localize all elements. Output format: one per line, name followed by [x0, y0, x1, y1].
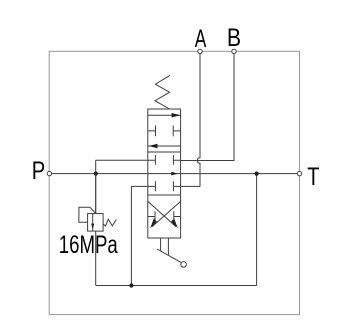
junction: P branch — [94, 172, 98, 176]
wire: valve lower-left port to tank riser — [131, 186, 147, 285]
position 1 flow arrow left — [148, 145, 181, 147]
svg-text:A: A — [195, 25, 207, 53]
relief valve body — [88, 214, 104, 232]
lever actuator knob — [181, 262, 187, 268]
position 2 lower blocked port T-stubs — [148, 181, 181, 191]
enclosure border — [49, 51, 299, 314]
valve body: 3-position outer box — [148, 109, 181, 238]
port A — [198, 49, 202, 53]
junction: T branch — [255, 172, 259, 176]
wire: bottom tank line — [96, 285, 257, 287]
junction: tank line — [129, 283, 133, 287]
relief valve outlet line — [95, 231, 97, 285]
relief valve pilot line — [79, 207, 96, 222]
relief valve internal flow line — [92, 214, 94, 232]
position 3 blocked port T-stubs — [148, 211, 181, 222]
port P — [47, 171, 51, 175]
relief valve internal arrowhead — [91, 224, 94, 230]
lever actuator stems — [161, 238, 169, 255]
position 1 flow arrow right — [148, 114, 181, 116]
position 1 blocked port T-stubs — [148, 126, 181, 137]
wire: main P-T line — [52, 173, 298, 175]
svg-text:16MPa: 16MPa — [59, 231, 118, 259]
wire: B port line — [181, 54, 234, 161]
lever actuator arm — [157, 249, 181, 262]
wire: P branch riser (junction up to upper-left valve feed, down to relief valve) — [95, 160, 97, 213]
port B — [232, 49, 236, 53]
valve divider 2 — [148, 194, 181, 196]
svg-text:B: B — [227, 24, 241, 52]
valve return spring — [155, 75, 170, 109]
svg-text:P: P — [32, 157, 46, 185]
port T — [297, 171, 301, 175]
valve divider 1 — [148, 151, 181, 153]
position 3 crossed arrow 1 — [148, 202, 176, 227]
wire: A port line with hop over B line — [181, 54, 200, 187]
relief valve feed line — [95, 174, 97, 214]
position 2 upper blocked port T-stubs — [148, 155, 181, 165]
svg-text:T: T — [307, 163, 319, 191]
wire: branch to valve upper-left port — [96, 159, 148, 161]
relief valve spring — [103, 219, 116, 226]
position 2 bypass arrow right — [171, 172, 178, 176]
position 3 crossed arrow 2 — [152, 202, 181, 227]
wire: tank riser to T line — [256, 174, 258, 286]
